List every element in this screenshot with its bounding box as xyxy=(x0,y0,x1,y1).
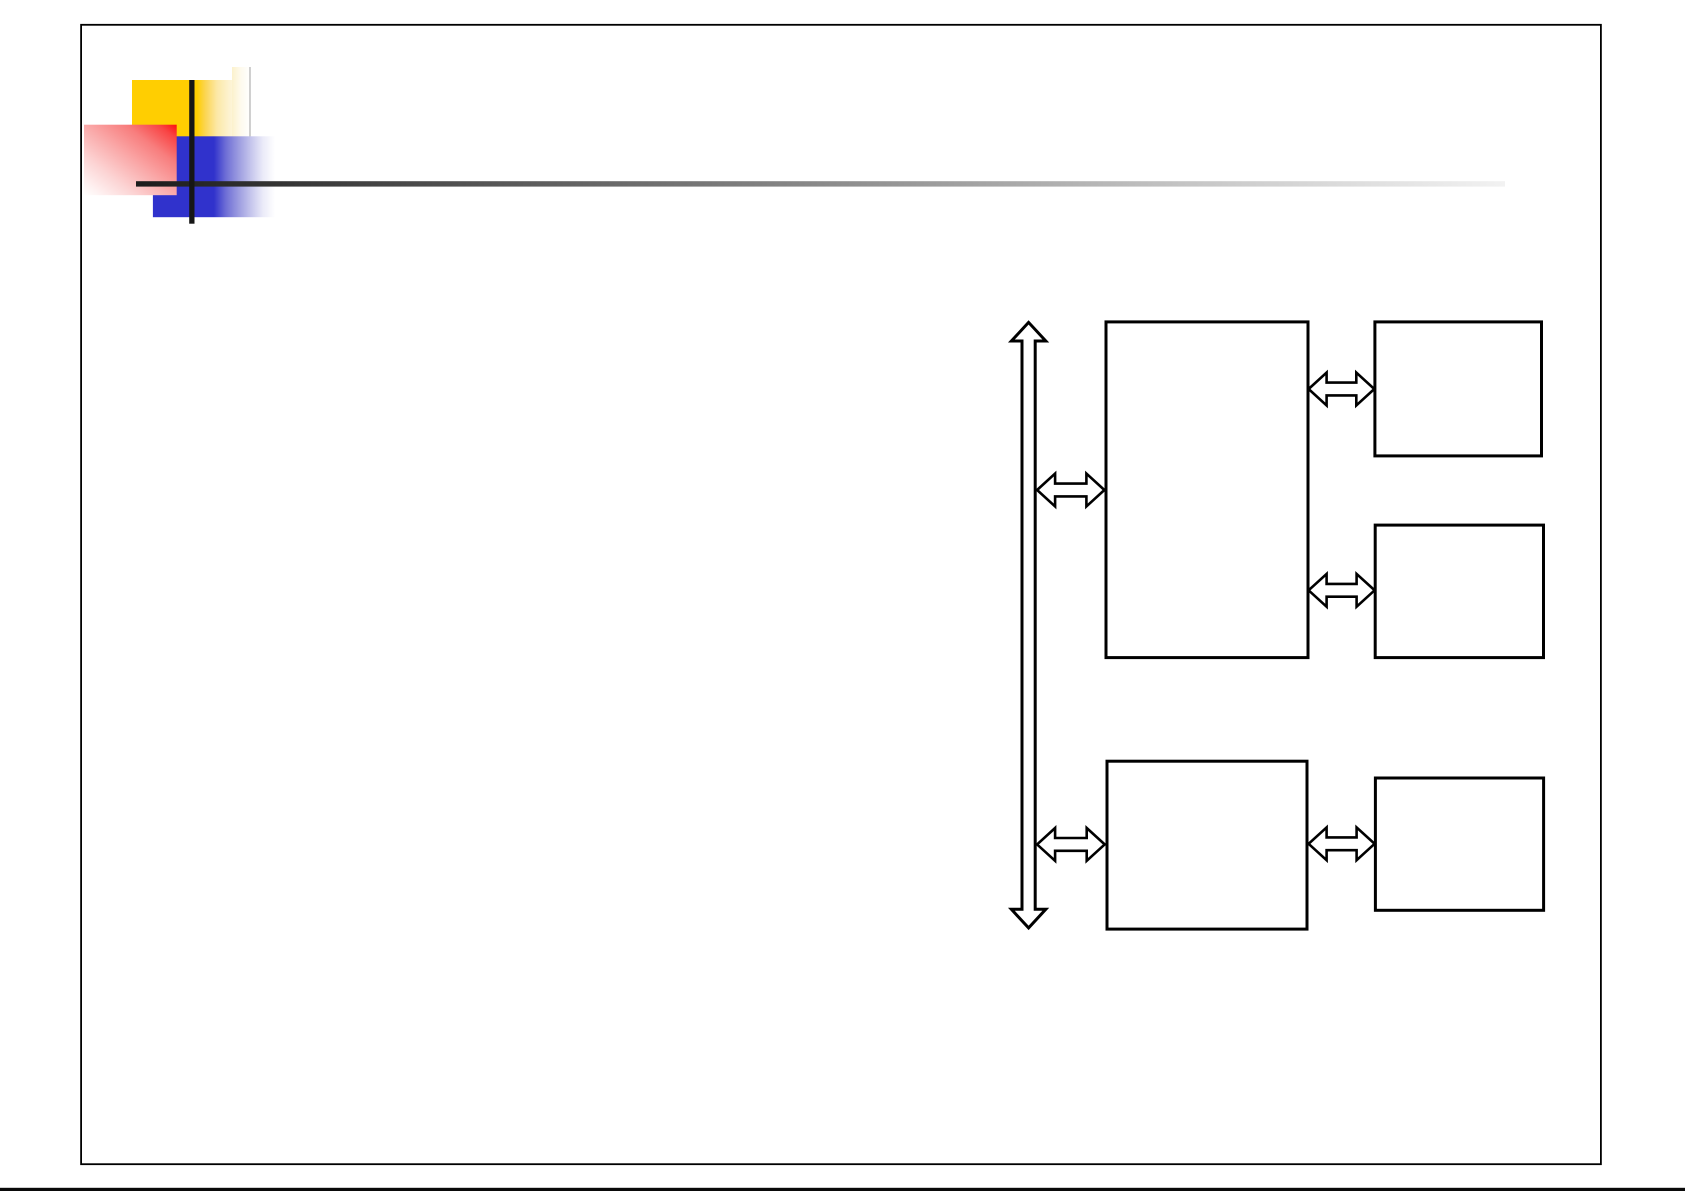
logo red square xyxy=(84,125,177,196)
block bottom-right rectangle xyxy=(1375,778,1543,910)
block top-right rectangle xyxy=(1375,322,1542,456)
logo pale tall rectangle xyxy=(232,67,250,138)
horizontal gradient rule xyxy=(136,181,1505,186)
logo blue square xyxy=(153,136,275,217)
block bottom large rectangle xyxy=(1107,761,1307,929)
arrow top large to top-right rectangle xyxy=(1309,373,1375,406)
arrow bus to top large rectangle xyxy=(1037,474,1104,507)
arrow bus to bottom large rectangle xyxy=(1037,828,1105,861)
arrow bottom large to bottom-right rectangle xyxy=(1309,827,1375,860)
block CPU (top large rectangle) xyxy=(1106,322,1308,658)
logo yellow square xyxy=(132,80,250,138)
block middle-right rectangle xyxy=(1375,525,1543,658)
arrow top large to middle-right rectangle xyxy=(1309,574,1375,607)
vertical black rule xyxy=(189,80,194,224)
bottom screen-edge black bar xyxy=(0,1188,1685,1191)
bus: long vertical double arrow xyxy=(1011,322,1045,928)
